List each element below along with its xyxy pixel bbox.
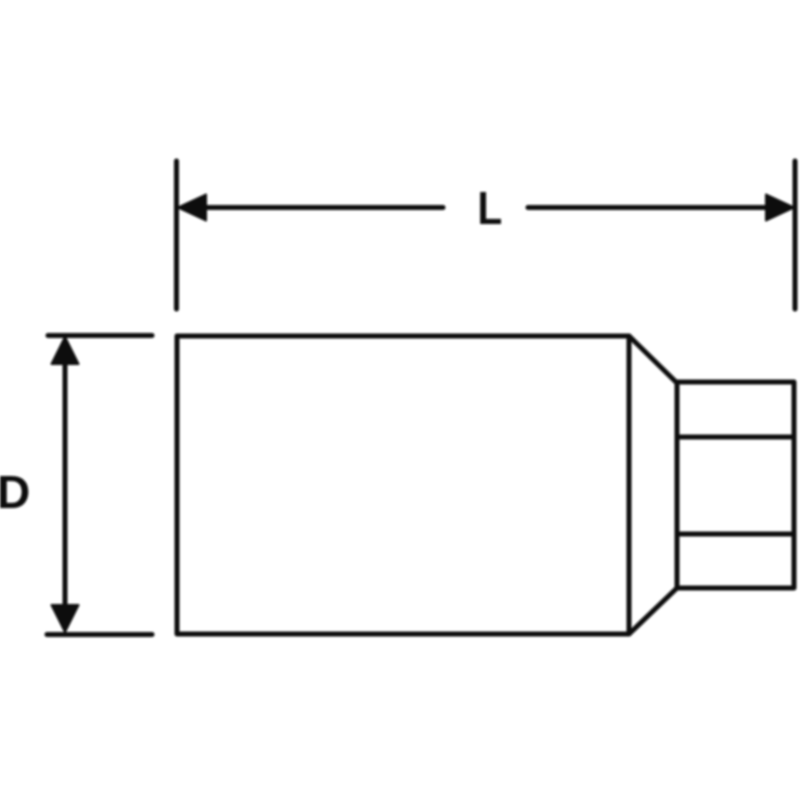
svg-text:L: L: [478, 184, 503, 235]
svg-text:D: D: [0, 466, 30, 518]
